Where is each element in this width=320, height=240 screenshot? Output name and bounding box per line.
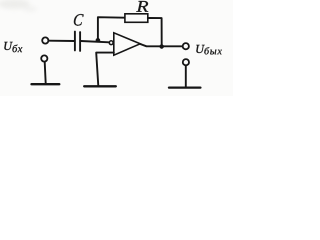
ground bar (op-amp + input) (84, 85, 116, 87)
input terminal (Uvx) (42, 37, 48, 43)
resistor R (125, 14, 148, 22)
value label R (136, 1, 148, 12)
op-amp inverting input bubble (109, 41, 113, 45)
op-amp U1 triangle (114, 33, 140, 55)
wire feedback up and across to R (98, 17, 125, 40)
wire C to op-amp inverting input (81, 41, 109, 42)
ground bar (left) (32, 83, 60, 85)
node junction dot (output) (160, 44, 164, 48)
wire op-amp + input down to ground (96, 53, 114, 86)
wire lower-right terminal to ground (185, 66, 187, 88)
node Uvyx label (196, 45, 222, 55)
wire op-amp output to terminal (140, 44, 182, 46)
capacitor C (75, 32, 80, 51)
ground bar (right) (169, 86, 200, 88)
wire R to output node (148, 18, 162, 46)
node Uvx label (4, 42, 22, 52)
wire input terminal to C (49, 40, 74, 42)
lower-left terminal (41, 55, 47, 61)
wire lower-left terminal to ground (45, 62, 46, 84)
node junction dot (feedback tap) (96, 38, 100, 42)
output terminal (Uvyx) (183, 43, 189, 49)
lower-right terminal (183, 59, 189, 65)
value label C (73, 14, 83, 26)
